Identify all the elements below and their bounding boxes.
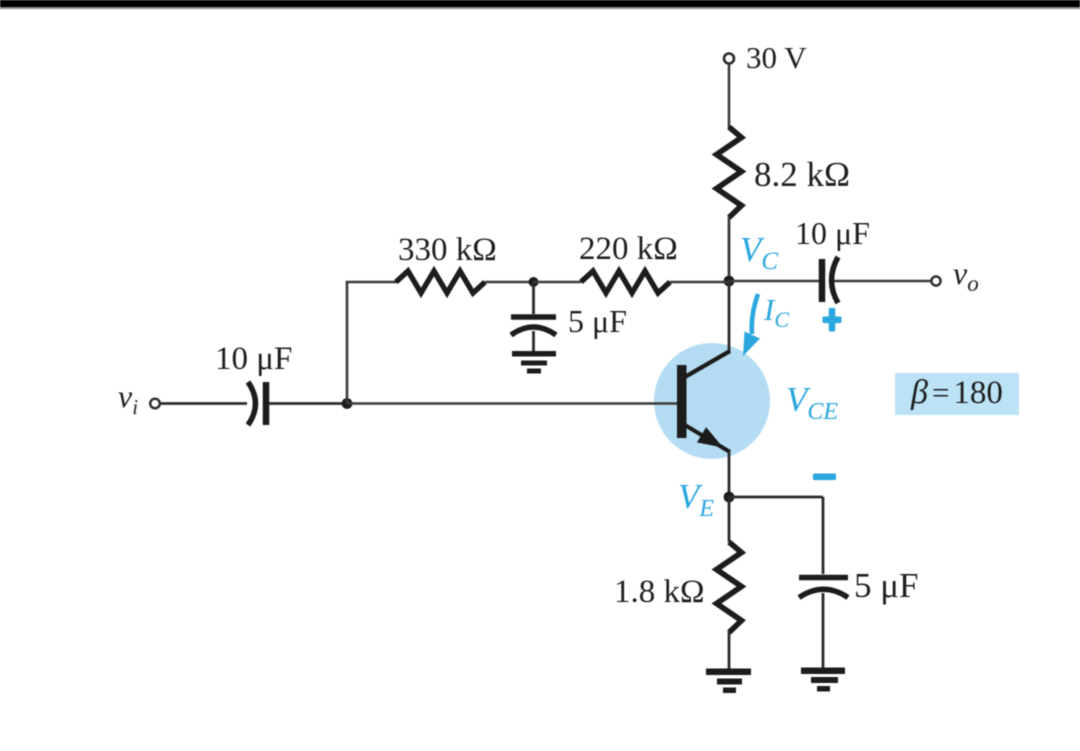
wire R2b to node VC bbox=[670, 281, 729, 284]
wire R1 to node VC bbox=[728, 217, 731, 281]
svg-text:8.2 kΩ: 8.2 kΩ bbox=[754, 155, 850, 194]
transistor Q1 highlight circle bbox=[654, 343, 770, 459]
wire corner to R2a bbox=[346, 281, 397, 284]
capacitor C3 5uF top plate bbox=[511, 314, 556, 320]
node VC junction dot bbox=[724, 276, 735, 287]
wire VE down to R3 bbox=[728, 497, 731, 542]
svg-text:VCE: VCE bbox=[786, 380, 838, 425]
wire C1 to base junction bbox=[269, 402, 347, 405]
transistor Q1 emitter lead bbox=[684, 425, 730, 453]
ground G1 under C3 bbox=[512, 351, 556, 374]
wire C2 to vo bbox=[834, 280, 932, 283]
wire VCC to R1 bbox=[728, 64, 731, 128]
wire junction to base bbox=[347, 402, 677, 405]
resistor R1 8.2k bbox=[717, 127, 742, 218]
resistor R3 1.8k bbox=[717, 542, 742, 633]
wire junction up bbox=[346, 282, 349, 404]
plus sign bbox=[823, 308, 842, 332]
svg-text:VC: VC bbox=[740, 230, 778, 275]
current arrow IC bbox=[743, 294, 760, 356]
node VE junction dot bbox=[724, 492, 735, 503]
capacitor C3 curved bottom plate bbox=[511, 327, 556, 335]
wire collector bbox=[728, 281, 731, 352]
transistor Q1 collector lead bbox=[684, 351, 730, 378]
svg-text:VE: VE bbox=[678, 477, 714, 522]
capacitor C2 right curved plate bbox=[832, 257, 839, 303]
node A junction dot bbox=[529, 277, 539, 287]
svg-text:IC: IC bbox=[763, 292, 789, 332]
transistor Q1 base bar bbox=[677, 365, 687, 438]
svg-text:1.8 kΩ: 1.8 kΩ bbox=[614, 574, 705, 610]
wire node VC to C2 bbox=[729, 280, 819, 283]
beta box bbox=[895, 373, 1019, 415]
svg-text:30 V: 30 V bbox=[746, 40, 807, 75]
svg-text:330 kΩ: 330 kΩ bbox=[398, 232, 497, 268]
resistor R2a 330k bbox=[396, 271, 485, 293]
svg-text:vi: vi bbox=[118, 378, 138, 419]
wire R2a to node A bbox=[485, 281, 533, 284]
resistor R2b 220k bbox=[581, 271, 670, 293]
ground G3 under C4 bbox=[801, 668, 845, 692]
svg-text:5 μF: 5 μF bbox=[568, 303, 627, 339]
minus sign bbox=[813, 474, 836, 481]
node VCC terminal 30V bbox=[724, 54, 734, 64]
capacitor C1 left curved plate bbox=[248, 382, 256, 425]
capacitor C1 right plate bbox=[263, 382, 270, 425]
wire node A down to C3 bbox=[532, 282, 535, 314]
svg-text:10 μF: 10 μF bbox=[215, 341, 292, 377]
wire vi to C1 bbox=[160, 402, 247, 405]
svg-text:β=180: β=180 bbox=[910, 374, 1003, 411]
svg-text:220 kΩ: 220 kΩ bbox=[579, 231, 678, 267]
wire C4 to ground bbox=[822, 593, 825, 669]
wire VE to C4 bbox=[729, 496, 823, 499]
wire emitter to node VE bbox=[728, 451, 731, 497]
svg-text:10 μF: 10 μF bbox=[795, 215, 870, 251]
node base junction dot bbox=[342, 398, 353, 409]
terminal vo bbox=[931, 276, 940, 285]
wire C3 to ground bbox=[532, 331, 535, 353]
ground G2 under R3 bbox=[706, 669, 751, 694]
wire C4 drop bbox=[822, 497, 825, 574]
capacitor C4 5uF top plate bbox=[799, 575, 848, 581]
wire node A to R2b bbox=[533, 281, 581, 284]
wire R3 to ground bbox=[728, 632, 731, 670]
svg-text:vo: vo bbox=[953, 255, 979, 296]
terminal vi bbox=[150, 399, 160, 409]
capacitor C4 curved bottom plate bbox=[799, 589, 848, 597]
capacitor C2 10uF left plate bbox=[819, 259, 826, 302]
svg-text:5 μF: 5 μF bbox=[854, 566, 918, 605]
transistor Q1 emitter arrow bbox=[697, 427, 723, 447]
